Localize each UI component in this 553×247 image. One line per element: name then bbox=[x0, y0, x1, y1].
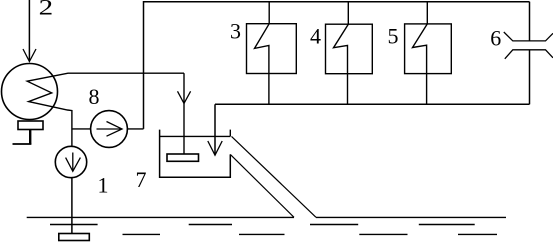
wire: junction to pump 8 bbox=[72, 128, 90, 130]
wire: feed line 2 (vertical inlet) bbox=[28, 0, 30, 61]
svg-text:7: 7 bbox=[136, 167, 147, 192]
venturi restriction 6 upper bbox=[504, 32, 553, 41]
heater box 5 bbox=[405, 24, 452, 74]
pump 1 (circle with down arrow) bbox=[55, 146, 86, 177]
svg-text:1: 1 bbox=[98, 173, 109, 198]
anchor block under water bbox=[59, 234, 90, 241]
water surface main line right bbox=[316, 216, 506, 218]
svg-text:5: 5 bbox=[388, 24, 399, 49]
venturi restriction 6 lower bbox=[505, 50, 553, 59]
wire: pump 1 outlet down to anchor bbox=[71, 178, 73, 234]
wire: right drop lower bbox=[529, 50, 531, 105]
wire: riser to top bus bbox=[144, 2, 530, 129]
water hatch level 2 bbox=[50, 224, 475, 226]
arrow: into tank bbox=[208, 141, 222, 155]
svg-text:4: 4 bbox=[310, 24, 321, 49]
water surface main line left bbox=[27, 216, 294, 218]
tank 7 rim / water level bbox=[160, 135, 231, 137]
wire: pump 8 outlet to riser bbox=[127, 128, 144, 130]
wire: top bus to box 3 bbox=[268, 2, 270, 24]
tank 7 right rim stub bbox=[229, 130, 231, 137]
pedestal foot bbox=[13, 143, 32, 145]
wire: drop from coil inlet node down into tank (with arrow) bbox=[183, 73, 185, 154]
arrow: on drop line bbox=[178, 91, 191, 103]
heater box 4 bbox=[326, 24, 373, 73]
pedestal under evaporator bbox=[18, 121, 43, 130]
wire: right drop upper bbox=[529, 2, 531, 41]
tank 7 walls bbox=[160, 130, 231, 178]
pedestal stem bbox=[29, 130, 31, 145]
wire: top bus to box 4 bbox=[347, 2, 349, 25]
pump 8 (circle with right arrow) bbox=[91, 111, 128, 148]
svg-text:6: 6 bbox=[490, 25, 501, 50]
wire: bottom bus drop into tank (with arrow) bbox=[214, 104, 216, 154]
element symbol in box 5 bbox=[413, 24, 428, 104]
chute lower line bbox=[230, 154, 294, 217]
svg-text:3: 3 bbox=[230, 18, 241, 43]
wire: bottom bus bbox=[215, 103, 530, 105]
coil inside evaporator (zigzag) with inlet run to node above tank bbox=[27, 73, 184, 146]
arrow: into evaporator bbox=[23, 49, 36, 62]
element symbol in box 4 bbox=[334, 24, 349, 104]
wire: top bus to box 5 bbox=[426, 2, 428, 24]
svg-text:2: 2 bbox=[39, 0, 54, 20]
evaporator vessel (circle) bbox=[2, 64, 58, 120]
chute upper line bbox=[232, 136, 317, 217]
water hatch level 3 bbox=[123, 233, 498, 235]
element symbol in box 3 bbox=[255, 24, 270, 105]
heater box 3 bbox=[247, 24, 297, 74]
svg-text:8: 8 bbox=[89, 84, 100, 109]
float block in tank bbox=[167, 154, 199, 161]
